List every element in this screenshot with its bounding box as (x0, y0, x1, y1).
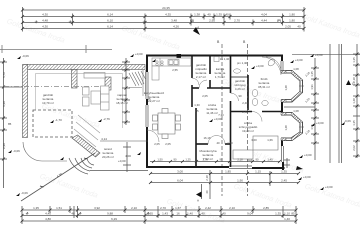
svg-text:6,14: 6,14 (107, 13, 113, 17)
svg-text:2,10: 2,10 (229, 206, 235, 210)
stairs / ramp hatch (129, 70, 146, 96)
svg-text:2,40: 2,40 (242, 110, 248, 114)
svg-text:40: 40 (201, 212, 205, 216)
svg-text:40: 40 (207, 13, 211, 17)
svg-text:1,35: 1,35 (352, 120, 356, 126)
svg-text:16,16: 16,16 (204, 136, 211, 140)
svg-text:1,35: 1,35 (281, 170, 287, 174)
svg-text:19,20 m²: 19,20 m² (242, 129, 254, 133)
svg-text:+0,00: +0,00 (214, 117, 222, 121)
right dim line (353, 44, 360, 158)
svg-text:1,08: 1,08 (293, 67, 299, 71)
svg-text:3,48: 3,48 (171, 19, 177, 23)
svg-text:+0,00: +0,00 (316, 121, 324, 125)
svg-text:2,05: 2,05 (154, 142, 160, 146)
svg-text:13,79 m²: 13,79 m² (42, 101, 54, 105)
svg-text:1,15: 1,15 (255, 170, 261, 174)
svg-text:1,67: 1,67 (175, 206, 181, 210)
svg-text:1,35: 1,35 (275, 212, 281, 216)
svg-text:4,40: 4,40 (45, 212, 51, 216)
svg-text:1,48: 1,48 (352, 98, 356, 104)
svg-text:-1,70: -1,70 (55, 118, 62, 122)
svg-text:2,10: 2,10 (131, 206, 137, 210)
svg-text:4,14: 4,14 (101, 137, 107, 141)
svg-text:1,80: 1,80 (289, 19, 295, 23)
svg-text:3,00: 3,00 (251, 138, 257, 142)
svg-text:2,40: 2,40 (242, 101, 248, 105)
svg-text:1,48: 1,48 (284, 125, 288, 131)
black triangle right (346, 80, 351, 85)
bay window 2 (bottom) (281, 113, 303, 141)
beds / furniture bottom rooms (233, 136, 278, 159)
bay 2 hatched corners (281, 113, 303, 141)
bottom dim block (22, 206, 296, 224)
svg-text:3,00: 3,00 (177, 170, 183, 174)
svg-text:1,85: 1,85 (225, 170, 231, 174)
svg-text:1,80: 1,80 (289, 13, 295, 17)
right side elevation markers (152, 58, 333, 190)
bay dims small labels (242, 67, 299, 114)
svg-text:40: 40 (71, 212, 75, 216)
svg-text:9,88: 9,88 (107, 212, 113, 216)
svg-text:1,35: 1,35 (352, 57, 356, 63)
svg-text:1,91: 1,91 (310, 124, 314, 130)
svg-text:+0,00: +0,00 (325, 185, 333, 189)
svg-text:1,10: 1,10 (284, 212, 290, 216)
svg-text:+0,00: +0,00 (315, 53, 323, 57)
bay 1 hatched corners (281, 71, 303, 103)
svg-text:05,31 m²: 05,31 m² (258, 85, 270, 89)
svg-text:6,29: 6,29 (111, 217, 117, 221)
svg-text:20,26 m²: 20,26 m² (102, 155, 114, 159)
svg-text:6,14: 6,14 (107, 25, 113, 29)
section arrow bottom (201, 184, 203, 199)
svg-text:1,40: 1,40 (267, 158, 273, 162)
vertical dim line at terrace right (122, 58, 130, 125)
svg-text:2,90: 2,90 (2, 143, 6, 149)
svg-text:6,04: 6,04 (177, 179, 183, 183)
svg-text:-0,06: -0,06 (21, 191, 28, 195)
M flags on top dims (34, 19, 281, 25)
svg-text:2,17 m²: 2,17 m² (196, 75, 206, 79)
svg-text:85: 85 (195, 109, 199, 113)
svg-text:1,40: 1,40 (284, 217, 290, 221)
svg-text:1,08: 1,08 (293, 109, 299, 113)
spot elevation above house (130, 52, 143, 57)
right wall window segments (229, 61, 284, 169)
spot elevation left (17, 54, 29, 59)
svg-text:1,35: 1,35 (33, 206, 39, 210)
svg-text:2,85: 2,85 (263, 206, 269, 210)
svg-text:1,51: 1,51 (56, 206, 62, 210)
svg-text:90: 90 (238, 94, 242, 98)
svg-text:16: 16 (176, 212, 180, 216)
svg-text:pm 1,40: pm 1,40 (237, 61, 248, 65)
section marker A top (193, 26, 200, 35)
terrace inner roof edge (36, 74, 123, 129)
svg-text:1,71 m²: 1,71 m² (215, 75, 225, 79)
svg-text:85: 85 (8, 122, 12, 126)
svg-text:4,80: 4,80 (45, 217, 51, 221)
svg-text:4,35: 4,35 (165, 13, 171, 17)
bathroom fixtures (214, 57, 268, 106)
svg-text:+0,00: +0,00 (295, 58, 303, 62)
dim labels near lower terrace (101, 137, 131, 158)
svg-text:1,25: 1,25 (185, 158, 191, 162)
svg-text:1,35: 1,35 (216, 13, 222, 17)
house outline dark walls (146, 55, 285, 170)
interior walls (192, 56, 282, 167)
svg-text:1,43: 1,43 (162, 212, 168, 216)
svg-text:90: 90 (174, 158, 177, 162)
svg-text:2,45: 2,45 (281, 179, 287, 183)
hatched pillar stub (105, 77, 111, 90)
dining table (153, 109, 181, 139)
dims under house (150, 170, 298, 199)
svg-text:+0,00: +0,00 (256, 64, 264, 68)
diagonal hatched wall (72, 135, 100, 157)
svg-text:1,30: 1,30 (194, 103, 200, 107)
svg-text:+0,00: +0,00 (303, 175, 311, 179)
svg-text:(P): (P) (190, 19, 194, 23)
svg-text:2,55: 2,55 (172, 68, 178, 72)
left wall window segments (146, 72, 148, 127)
svg-text:40: 40 (205, 190, 209, 194)
svg-text:24,35: 24,35 (162, 6, 170, 10)
svg-text:90: 90 (256, 158, 259, 162)
svg-text:4,04: 4,04 (261, 13, 267, 17)
diagonal dimension line (21, 153, 95, 201)
svg-text:1,50: 1,50 (157, 158, 163, 162)
svg-text:85: 85 (291, 212, 295, 216)
svg-text:4,00: 4,00 (125, 154, 131, 158)
svg-text:-0,06: -0,06 (344, 119, 351, 123)
svg-text:4,30: 4,30 (42, 25, 48, 29)
svg-text:+0,00: +0,00 (304, 153, 312, 157)
svg-text:40: 40 (297, 25, 301, 29)
right vertical lines (330, 44, 342, 163)
svg-text:2,05: 2,05 (165, 142, 171, 146)
site line right (292, 54, 360, 56)
svg-text:40: 40 (225, 13, 229, 17)
svg-text:40: 40 (222, 212, 226, 216)
pillar on top wall (177, 54, 182, 59)
svg-text:4,30: 4,30 (42, 13, 48, 17)
svg-text:+0,00: +0,00 (135, 52, 143, 56)
kitchen counters (152, 58, 191, 80)
svg-text:-0,06: -0,06 (22, 54, 29, 58)
svg-text:90: 90 (220, 158, 223, 162)
svg-text:11,46 m²: 11,46 m² (206, 111, 218, 115)
svg-text:1,76: 1,76 (202, 158, 208, 162)
svg-text:2,70: 2,70 (234, 19, 240, 23)
svg-text:2,18: 2,18 (205, 175, 209, 181)
bay window 1 (top) (281, 71, 303, 103)
svg-text:2,42: 2,42 (205, 206, 211, 210)
svg-text:1,90: 1,90 (237, 179, 243, 183)
svg-text:40: 40 (216, 141, 220, 145)
svg-text:2,05: 2,05 (285, 25, 291, 29)
left vertical dim line (0, 58, 23, 188)
door arcs (147, 78, 262, 144)
svg-text:9,04: 9,04 (247, 212, 253, 216)
dim chain above bottom wall (150, 161, 280, 163)
room labels (102, 63, 270, 162)
terrace interior label (42, 93, 54, 105)
diagonal step lines (74, 115, 100, 147)
svg-text:-0,06: -0,06 (13, 149, 20, 153)
nappali label (116, 93, 128, 105)
svg-text:7,30: 7,30 (218, 113, 224, 117)
svg-text:1,91: 1,91 (310, 84, 314, 90)
svg-text:1,48: 1,48 (284, 85, 288, 91)
svg-text:+0,00: +0,00 (118, 159, 126, 163)
svg-text:6,20: 6,20 (2, 101, 6, 107)
svg-text:4,26: 4,26 (173, 25, 179, 29)
svg-text:(P): (P) (277, 19, 281, 23)
tick slashes top (21, 9, 306, 31)
svg-text:5,72: 5,72 (2, 72, 6, 78)
garden furniture on terrace (83, 73, 110, 111)
lower terrace with curved steps (69, 141, 148, 174)
svg-text:15: 15 (147, 97, 151, 101)
svg-text:-2,76: -2,76 (103, 117, 110, 121)
svg-text:1,66: 1,66 (267, 138, 273, 142)
svg-text:2,95: 2,95 (209, 19, 215, 23)
svg-text:2,70: 2,70 (160, 206, 166, 210)
svg-text:1,40: 1,40 (187, 212, 193, 216)
svg-text:G: G (352, 82, 355, 86)
svg-text:6,10: 6,10 (107, 19, 113, 23)
svg-text:4,44: 4,44 (261, 19, 267, 23)
dashed rect lower terrace (33, 110, 72, 137)
svg-text:4,26 m²: 4,26 m² (235, 87, 245, 91)
interior small dims (147, 68, 273, 146)
section line B verticals (222, 44, 248, 196)
svg-text:3,92: 3,92 (94, 206, 100, 210)
svg-text:2,18: 2,18 (237, 158, 243, 162)
axis dash line terrace (4, 86, 105, 88)
left bottom arc (23, 142, 67, 161)
bay1 window tick (299, 85, 304, 87)
svg-text:A: A (197, 199, 199, 203)
svg-text:4,48: 4,48 (42, 19, 48, 23)
dimension labels top (42, 6, 301, 29)
terrace top hatched wall (23, 65, 146, 138)
site line left (0, 49, 112, 51)
svg-text:2,02: 2,02 (352, 145, 356, 151)
svg-text:lm 1,40: lm 1,40 (220, 57, 230, 61)
svg-text:2,05: 2,05 (202, 94, 208, 98)
terrace divider hatched wall (72, 70, 78, 89)
middle right vertical dim line (284, 58, 319, 160)
corner tub top right (262, 57, 281, 75)
svg-text:1,38: 1,38 (194, 13, 200, 17)
dimension lines top (23, 7, 305, 32)
svg-text:1,60: 1,60 (227, 141, 233, 145)
